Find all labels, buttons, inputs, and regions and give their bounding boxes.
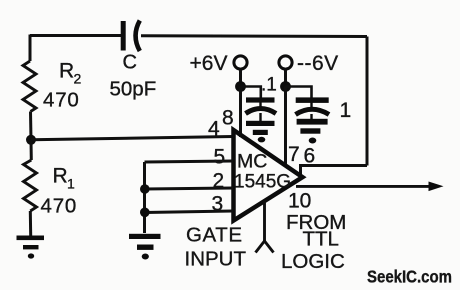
ground (gate input) (129, 234, 161, 260)
svg-text:LOGIC: LOGIC (281, 250, 345, 273)
wire +6V stem (239, 70, 242, 87)
svg-text:8: 8 (222, 107, 234, 130)
wire pin 3 (145, 211, 234, 213)
node +6V junction (235, 81, 246, 92)
wire pin 8 (239, 87, 242, 138)
wire top rail (30, 36, 367, 37)
resistor R1 (24, 160, 37, 211)
ground (below C2) (246, 121, 275, 143)
wire pin 2 (145, 188, 234, 189)
output arrowhead (429, 182, 444, 192)
wire pin 6 loop (301, 166, 368, 175)
wire pin 4 (31, 137, 233, 140)
wire output (296, 185, 431, 188)
terminal -6V (279, 56, 292, 69)
svg-text:INPUT: INPUT (185, 248, 247, 271)
capacitor C3 bypass (-6V) (296, 97, 330, 119)
svg-text:470: 470 (43, 89, 80, 112)
capacitor C2 bypass (+6V) (246, 97, 277, 121)
svg-text:2: 2 (213, 170, 225, 193)
svg-text:R: R (53, 165, 68, 188)
svg-text:2: 2 (74, 71, 82, 87)
node junction pin 3 (140, 208, 150, 218)
wire -6V stem (284, 70, 287, 87)
svg-text:1: 1 (340, 99, 352, 122)
capacitor C1 top (flat plate) (121, 21, 126, 51)
svg-text:1545G: 1545G (234, 172, 291, 193)
ground (below R1) (17, 236, 45, 259)
svg-text:.1: .1 (261, 75, 277, 96)
svg-text:TTL: TTL (303, 228, 339, 251)
wire pin 5 (145, 161, 234, 162)
terminal +6V (234, 56, 247, 69)
wire left rail upper stub (29, 35, 32, 62)
svg-text:--6V: --6V (297, 52, 339, 75)
svg-text:7: 7 (288, 143, 300, 166)
svg-text:SeekIC.com: SeekIC.com (367, 267, 452, 287)
svg-text:+6V: +6V (190, 52, 228, 75)
wire R1 top stub (30, 140, 33, 160)
wire cap stem (+6V to C2) (241, 87, 261, 98)
svg-text:6: 6 (304, 145, 316, 168)
svg-text:10: 10 (288, 190, 311, 213)
svg-text:50pF: 50pF (110, 78, 157, 101)
wire pin 7 (284, 87, 287, 166)
node junction left rail / pin4 (26, 135, 36, 145)
wire right rail (366, 37, 369, 166)
node junction pin 2 (140, 184, 150, 194)
svg-text:5: 5 (214, 146, 226, 169)
wire gate vertical (143, 162, 146, 233)
svg-text:R: R (59, 60, 74, 83)
ground (below C3) (297, 119, 328, 144)
wire R1 bottom stub (29, 211, 32, 236)
svg-text:4: 4 (208, 118, 220, 141)
wire left rail mid stub (29, 112, 33, 141)
svg-text:MC: MC (237, 151, 267, 173)
resistor R2 (23, 61, 36, 112)
wire TTL input stem (crow's foot) (256, 201, 274, 253)
node -6V junction (280, 81, 291, 92)
op-amp U1 MC1545G (234, 130, 303, 221)
wire cap stem (-6V to C3) (286, 87, 312, 98)
capacitor C1 top (curved plate) (136, 21, 140, 52)
svg-text:3: 3 (212, 193, 224, 216)
svg-text:1: 1 (67, 176, 75, 192)
svg-text:470: 470 (41, 195, 78, 218)
svg-text:GATE: GATE (186, 224, 243, 247)
svg-text:C: C (123, 52, 137, 74)
